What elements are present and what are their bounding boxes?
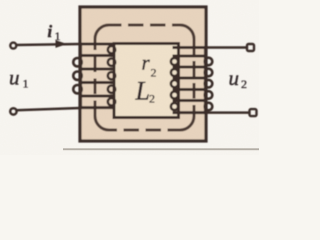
- flux loop corner arcs: [95, 25, 109, 39]
- coil L2 outer loops: [205, 58, 213, 111]
- flux loop dashed right: [193, 39, 196, 116]
- scan edge bottom: [63, 148, 259, 150]
- coil L1 outer edge: [79, 43, 82, 110]
- flux loop dashed top: [109, 24, 180, 27]
- flux path (dashed loop): [95, 25, 194, 130]
- core window: [114, 44, 179, 118]
- coil L2 rungs (right winding turns crossing right leg): [173, 48, 208, 113]
- terminal top-left: [10, 43, 16, 49]
- coil L1 inner loops (on window left edge): [108, 46, 115, 106]
- wire: input bottom: [16, 108, 80, 110]
- terminal top-right: [247, 44, 254, 51]
- flux loop dashed left: [94, 39, 97, 116]
- scan noise: [0, 0, 1, 1]
- wire: output bottom: [206, 111, 250, 114]
- wire: output top: [206, 46, 247, 49]
- terminal bottom-left: [10, 108, 16, 114]
- flux loop dashed bottom: [109, 129, 180, 132]
- coil L2 inner loops (on window right edge): [171, 58, 178, 110]
- terminal bottom-right: [250, 109, 257, 116]
- coil L1 rungs (left winding turns crossing left leg): [79, 44, 116, 108]
- wire: input top: [16, 44, 80, 45]
- arrowhead i1: [56, 40, 68, 48]
- coil L1 outer loops: [73, 58, 81, 93]
- coil L2 outer edge: [204, 46, 207, 114]
- core (iron core outer outline, shaded): [80, 7, 206, 141]
